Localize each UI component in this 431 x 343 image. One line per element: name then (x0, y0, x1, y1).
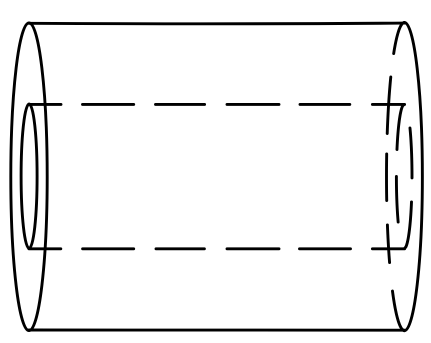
inner bore: right end rim, hidden (dashed) (396, 105, 412, 249)
outer cylinder: left end face outer rim (11, 23, 47, 331)
outer cylinder: right end rim, visible right half (solid) (405, 22, 423, 330)
inner bore: top hidden line (solid lead + dashes) (29, 103, 405, 106)
outer cylinder: top silhouette line (29, 22, 405, 26)
outer cylinder: bottom silhouette line (29, 329, 405, 332)
outer cylinder: right end rim, hidden left half (dashed) (387, 23, 404, 331)
inner bore: bottom hidden line (solid lead + dashes) (29, 247, 405, 250)
inner bore: left end rim (21, 104, 37, 248)
